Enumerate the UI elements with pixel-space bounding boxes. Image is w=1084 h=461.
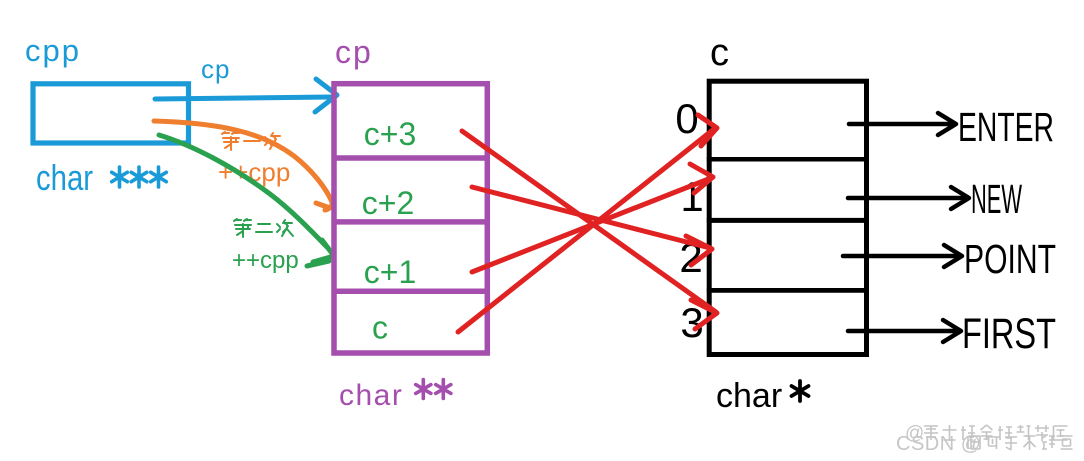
- svg-text:char: char: [339, 379, 403, 412]
- watermark line 1: @稀土掘金技术社区: [905, 423, 1068, 444]
- svg-text:c+2: c+2: [362, 185, 414, 221]
- wire red c+3 -> 3: [462, 131, 716, 312]
- wire black arrow cell0 -> ENTER: [849, 122, 952, 127]
- divider black 2: [707, 218, 869, 223]
- divider purple 1: [332, 155, 491, 161]
- label 第一次 (orange): [222, 132, 281, 150]
- box cpp (char*** pointer box): [33, 84, 189, 143]
- divider black 3: [707, 288, 869, 293]
- svg-text:cpp: cpp: [25, 33, 81, 68]
- wire orange curve first ++cpp: [154, 121, 332, 202]
- wire red c -> 0: [458, 129, 714, 332]
- svg-text:char: char: [36, 157, 93, 198]
- divider purple 3: [332, 288, 491, 294]
- divider black 1: [707, 157, 869, 162]
- svg-text:NEW: NEW: [971, 176, 1022, 222]
- asterisks of char***: [112, 167, 167, 187]
- box char* (right black box): [709, 81, 866, 354]
- wire blue arrow cpp->cp: [155, 97, 332, 99]
- svg-text:++cpp: ++cpp: [232, 247, 299, 274]
- wire black arrow cell2 -> POINT: [843, 254, 958, 259]
- svg-text:ENTER: ENTER: [958, 104, 1054, 150]
- svg-text:c+1: c+1: [364, 254, 416, 290]
- svg-text:FIRST: FIRST: [962, 310, 1056, 358]
- asterisk of char*: [792, 381, 809, 401]
- svg-text:cp: cp: [201, 54, 230, 84]
- svg-text:POINT: POINT: [964, 236, 1056, 282]
- watermark line 2: CSDN @ + name: [896, 433, 1073, 455]
- wire black arrow cell1 -> NEW: [848, 196, 965, 201]
- divider purple 2: [332, 219, 491, 225]
- svg-text:cp: cp: [335, 34, 373, 70]
- wire red c+1 -> 1: [472, 178, 711, 272]
- svg-text:0: 0: [675, 95, 698, 142]
- svg-text:c+3: c+3: [364, 116, 416, 152]
- svg-text:char: char: [716, 377, 782, 415]
- wire black arrow cell3 -> FIRST: [848, 329, 957, 334]
- wire green curve second ++cpp: [159, 135, 328, 248]
- asterisks of char**: [416, 380, 451, 399]
- wire red c+2 -> 2: [472, 187, 710, 248]
- svg-text:c: c: [372, 310, 388, 346]
- box char** (middle purple box): [334, 84, 487, 353]
- label 第二次 (green): [234, 219, 293, 237]
- svg-text:c: c: [710, 32, 729, 74]
